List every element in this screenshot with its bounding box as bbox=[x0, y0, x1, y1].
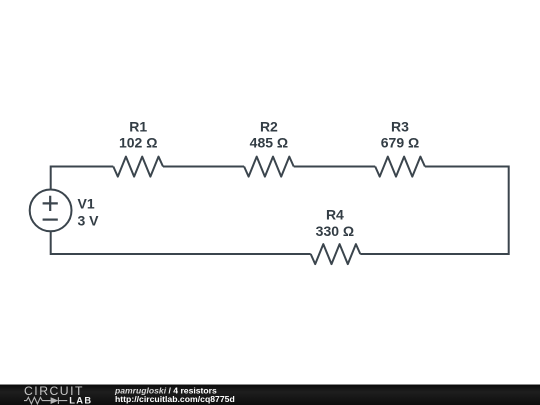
footer bar bbox=[0, 385, 540, 405]
svg-text:R3: R3 bbox=[391, 118, 409, 134]
svg-text:485 Ω: 485 Ω bbox=[250, 135, 288, 151]
svg-text:679 Ω: 679 Ω bbox=[381, 135, 419, 151]
resistor R4 zigzag bbox=[311, 244, 361, 264]
wire bottom-left: V1 bottom to bottom rail left of R4 bbox=[51, 231, 311, 254]
logo diode triangle bbox=[51, 397, 59, 404]
svg-text:R1: R1 bbox=[129, 118, 147, 134]
svg-text:LAB: LAB bbox=[69, 396, 92, 405]
svg-text:330 Ω: 330 Ω bbox=[316, 223, 354, 239]
V1 minus sign bbox=[43, 219, 58, 221]
svg-text:102 Ω: 102 Ω bbox=[119, 135, 157, 151]
logo resistor-diode squiggle bbox=[24, 397, 67, 404]
wire between R2 and R3 bbox=[294, 166, 376, 168]
svg-text:3 V: 3 V bbox=[78, 212, 100, 228]
resistor R2 zigzag bbox=[244, 157, 294, 177]
wire right side: top rail after R3, right vertical, bottom rail to R4 bbox=[360, 167, 508, 255]
svg-text:http://circuitlab.com/cq8775d: http://circuitlab.com/cq8775d bbox=[115, 394, 235, 404]
resistor R3 zigzag bbox=[375, 157, 425, 177]
wire between R1 and R2 bbox=[163, 166, 244, 168]
svg-text:V1: V1 bbox=[78, 196, 95, 212]
svg-text:R2: R2 bbox=[260, 118, 278, 134]
V1 plus sign bbox=[43, 196, 58, 211]
svg-text:R4: R4 bbox=[326, 206, 344, 222]
wire top-left segment and left vertical down to V1 bbox=[51, 167, 114, 191]
voltage source V1 circle bbox=[30, 190, 72, 232]
resistor R1 zigzag bbox=[113, 157, 163, 177]
